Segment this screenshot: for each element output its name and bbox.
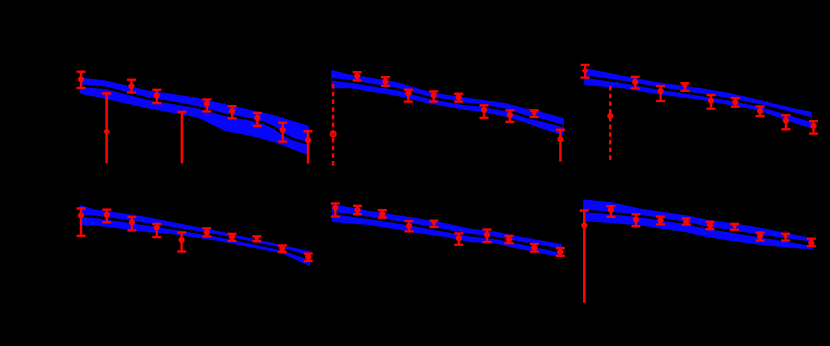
panel 6 central curve [584,211,812,244]
panel 2 data point 3 [404,90,413,102]
panel 6 data point 7 [756,233,765,241]
panel 1 data point 7 [228,106,237,118]
panel 2 data point 4 [429,91,438,101]
panel 1 data point 8 [253,113,262,126]
panel 3 data point 2 [631,77,640,89]
panel 6 data point 1 [606,206,615,217]
panel 2 dashed limit line with open circle [331,84,336,166]
panel 5 uncertainty band [333,205,561,256]
panel 5 data point 3 [378,210,387,218]
panel 2 data point 7 [505,110,514,121]
panel 5 data point 1 [331,203,340,216]
panel 1 central curve [81,86,308,144]
panel 3 data point 8 [781,115,790,129]
panel 5 data point 5 (triangle) [429,221,438,227]
panel 2 central curve [332,79,563,126]
panel 5 data point 7 [483,230,492,243]
panel 6 data point 4 [682,218,691,224]
panel 3 dashed limit line with filled circle [607,86,613,162]
panel 6 data point 8 (triangle) [781,233,790,240]
panel 5 central curve [333,213,561,251]
panel 3 uncertainty band [585,69,811,127]
panel 5 data point 2 [353,206,362,214]
panel 1 long error bar (point 5) [177,112,186,163]
panel 5 data point 10 [556,248,565,256]
panel 2 data point 5 [454,94,463,102]
panel 6 data point 2 [631,214,640,226]
panel 6 data point 9 [807,239,816,246]
panel 4 data point 9 [278,245,287,252]
panel 2 data point 8 (triangle) [530,110,539,117]
panel 4 band-gap wedge [282,248,309,261]
panel 4 data point 2 [102,210,111,223]
panel 4 data point 3 [127,217,136,231]
panel 1 data point 1 [77,72,86,88]
panel 6 long error bar with circle [580,211,589,303]
panel 4 uncertainty band [81,206,310,265]
panel 4 data point 4 [152,224,161,237]
panel 6 band-gap wedge [762,235,812,246]
panel 4 data point 10 [304,254,313,261]
panel 5 data point 6 [454,233,463,244]
panel 2 data point 2 [381,77,390,86]
panel 3 band-gap wedge [762,105,811,123]
panel 2 data point 1 [353,72,362,80]
panel 5 band-gap wedge [528,242,561,253]
panel 2 uncertainty band [332,71,563,134]
panel 2 data point 6 [480,105,489,118]
panel 4 central curve [81,216,310,259]
panel 6 data point 5 [706,222,715,229]
panel 3 data point 9 [809,121,818,133]
panel 3 data point 4 (triangle) [680,83,689,91]
panel 1 data point 6 [202,99,211,111]
panel 5 data point 8 [505,236,514,243]
panel 4 data point 1 [77,208,86,235]
panel 1 data point 4 [152,90,161,103]
panel 1 data point 10 with long tail [304,131,313,163]
panel 6 uncertainty band [584,200,812,248]
panel 6 data point 3 [656,217,665,225]
panel 3 data point 6 [731,98,740,107]
panel 1 uncertainty band [81,79,308,155]
panel 4 data point 5 [177,233,186,252]
panel 2 data point 9 with long tail [556,130,565,162]
panel 5 data point 4 [405,221,414,231]
panel 4 data point 7 [228,234,237,241]
panel 1 data point 9 [278,123,287,142]
panel 1 data point 3 [127,80,136,93]
panel 3 data point 7 [756,107,765,117]
panel 6 data point 6 (triangle) [730,224,739,230]
panel 5 data point 9 [530,244,539,252]
panel 4 data point 8 (triangle) [252,236,261,242]
panel 3 data point 3 [656,86,665,101]
panel 1 long error bar (point 2) [102,93,111,163]
panel 3 central curve [585,77,811,120]
panel 3 data point 1 [581,65,590,78]
panel 4 data point 6 [202,228,211,236]
panel 3 data point 5 [707,95,716,109]
